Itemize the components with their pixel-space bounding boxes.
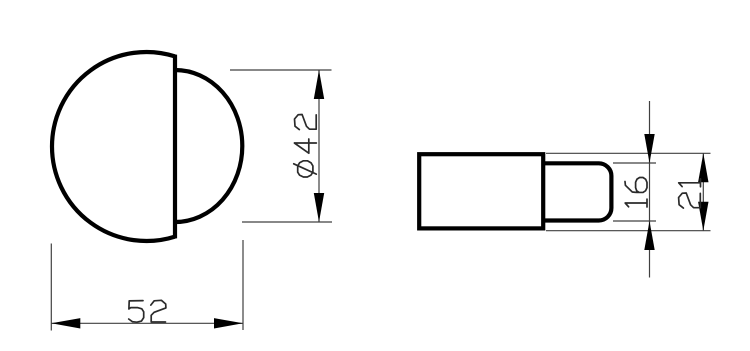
dimension 52: right extension line bbox=[242, 240, 244, 330]
dimension 16: dimension line with tails bbox=[649, 101, 651, 278]
side view: knob base rectangle bbox=[419, 154, 543, 228]
dimension 16: bottom arrowhead (outside, pointing up) bbox=[644, 221, 654, 250]
dimension text 52 bbox=[129, 300, 166, 322]
dimension 21: dimension line bbox=[702, 153, 704, 230]
dimension text 16 (rotated) bbox=[625, 178, 647, 208]
dimension Ø42: bottom arrowhead bbox=[314, 193, 324, 222]
dimension Ø42: bottom extension line bbox=[242, 221, 332, 223]
dimension 52: right arrowhead bbox=[214, 318, 243, 328]
dimension Ø42: top arrowhead bbox=[314, 70, 324, 99]
front view: knob body circle (Ø52 outline, arc left of flat) bbox=[52, 52, 175, 241]
dimension 21: top extension line bbox=[546, 152, 711, 154]
dimension 52: dimension line bbox=[51, 322, 243, 324]
dimension 21: bottom extension line bbox=[546, 230, 711, 232]
dimension 52: left arrowhead bbox=[51, 318, 80, 328]
dimension 21: bottom arrowhead bbox=[698, 202, 708, 231]
dimension text Ø42 (rotated) bbox=[294, 114, 317, 177]
dimension 16: bottom extension line bbox=[613, 220, 656, 222]
dimension text 21 (rotated) bbox=[679, 179, 701, 208]
front view: protruding dome arc (Ø42 half circle) bbox=[175, 70, 242, 222]
side view: protruding dome profile (rounded nose) bbox=[544, 163, 611, 220]
dimension 16: top extension line bbox=[613, 162, 656, 164]
dimension 52: left extension line bbox=[50, 244, 52, 331]
dimension Ø42: top extension line bbox=[230, 69, 332, 71]
dimension 21: top arrowhead bbox=[698, 153, 708, 182]
dimension Ø42: dimension line bbox=[318, 70, 320, 222]
dimension 16: top arrowhead (outside, pointing down) bbox=[644, 134, 654, 163]
front view: vertical flat edge (chord) bbox=[173, 55, 177, 239]
